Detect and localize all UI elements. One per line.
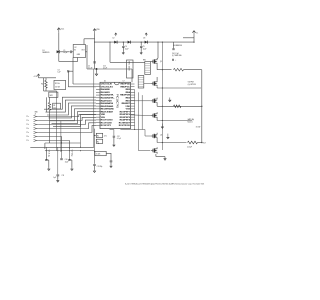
svg-text:RC0/T1OSO: RC0/T1OSO [101,120,113,122]
svg-text:OSC1/CLKI: OSC1/CLKI [101,84,113,86]
svg-text:RB0/INT: RB0/INT [122,103,131,105]
svg-text:OSC2/CLKO: OSC2/CLKO [101,86,114,88]
svg-text:RD6/PSP6: RD6/PSP6 [120,114,131,116]
svg-text:RN1 100x8: RN1 100x8 [128,62,130,71]
svg-text:VDD: VDD [125,106,130,108]
svg-text:RC2/CCP1: RC2/CCP1 [101,125,112,127]
svg-text:RD5/PSP5: RD5/PSP5 [120,117,131,119]
svg-text:RB3/PGM: RB3/PGM [120,95,130,97]
svg-text:VSS: VSS [101,117,106,119]
svg-text:RB6/PGC: RB6/PGC [120,86,130,88]
svg-text:VSS: VSS [126,109,131,111]
svg-text:RC1/T1OSI: RC1/T1OSI [101,122,112,124]
svg-text:RD7/PSP7: RD7/PSP7 [120,111,131,113]
svg-text:VDD: VDD [101,114,106,116]
svg-text:RC7/RX/DT: RC7/RX/DT [119,122,131,124]
svg-text:RB7/PGD: RB7/PGD [120,84,130,86]
svg-text:RC6/TX/CK: RC6/TX/CK [119,125,131,127]
